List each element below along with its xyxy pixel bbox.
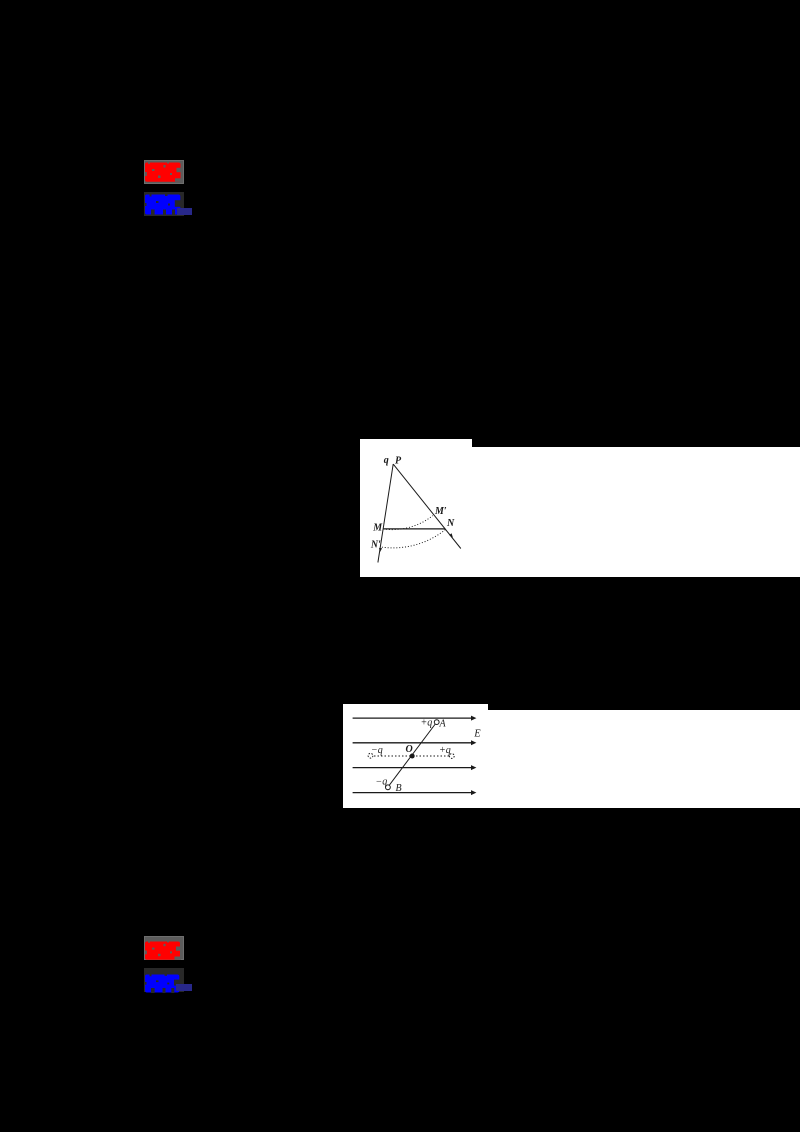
svg-text:B: B: [396, 783, 402, 794]
svg-text:+q: +q: [439, 745, 451, 756]
svg-text:−q: −q: [376, 777, 388, 788]
svg-text:E: E: [473, 729, 481, 740]
svg-text:q: q: [384, 455, 389, 466]
svg-text:+q: +q: [421, 718, 433, 729]
svg-text:M: M: [372, 522, 383, 533]
svg-text:N′: N′: [370, 539, 381, 550]
svg-text:O: O: [406, 744, 413, 755]
svg-text:M′: M′: [434, 506, 447, 517]
svg-text:N: N: [446, 518, 455, 529]
svg-text:P: P: [395, 456, 402, 467]
svg-text:−q: −q: [371, 745, 383, 756]
svg-text:A: A: [439, 719, 447, 730]
